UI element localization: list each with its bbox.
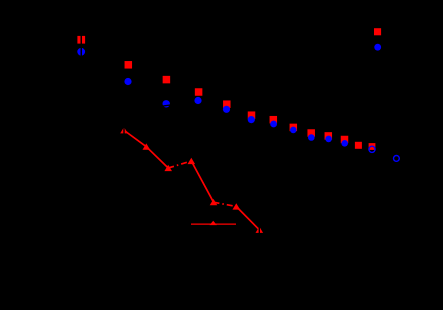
marker: blue circle B3 xyxy=(163,100,170,107)
marker: red triangle T1 xyxy=(120,127,128,133)
marker: red square R12 xyxy=(355,142,362,149)
black slash through B3 xyxy=(162,105,171,106)
marker: blue circle B8 xyxy=(290,127,297,134)
marker: red square R1 xyxy=(77,36,85,44)
marker: blue circle B6 xyxy=(248,116,255,123)
legend marker: red triangle on legend line xyxy=(210,221,217,225)
marker: blue circle B10 xyxy=(325,136,332,143)
marker: red square R8 xyxy=(290,124,298,131)
marker: red triangle T7 xyxy=(256,227,264,233)
marker: blue circle B1 xyxy=(77,48,85,56)
marker: red triangle T4 xyxy=(188,158,196,164)
marker: blue open circle O1 xyxy=(369,146,375,152)
wire: triangle-series line T1-T2 solid xyxy=(124,130,146,146)
marker: red square R13 xyxy=(369,143,376,150)
marker: red triangle T6 xyxy=(233,203,241,209)
wire: triangle-series line T5-T6 dashed xyxy=(214,202,237,206)
marker: red square R4 xyxy=(195,88,203,96)
wire: triangle-series line T3-T4 dash-dot xyxy=(168,161,191,168)
wire: triangle-series line T4-T5 solid xyxy=(191,161,213,202)
marker: red square R10 xyxy=(325,132,333,140)
marker: blue circle B11 xyxy=(341,140,348,147)
error bar (black) through R1 and B1 xyxy=(81,35,83,58)
marker: red square R6 xyxy=(248,111,256,119)
marker: red square R11 xyxy=(341,136,349,144)
error bar (black) through T7 xyxy=(259,226,260,235)
wire: triangle-series line T2-T3 solid xyxy=(146,147,168,168)
legend marker: red square (top right) xyxy=(374,28,381,35)
error bar (black) through T1 xyxy=(123,126,124,135)
legend sample: red line with triangle (bottom center) xyxy=(191,223,236,225)
marker: red square R2 xyxy=(125,61,133,69)
marker: blue circle B4 xyxy=(194,97,201,104)
legend marker: blue circle (top right) xyxy=(374,44,381,51)
marker: blue open circle O2 xyxy=(394,156,400,162)
marker: red square R3 xyxy=(163,76,171,84)
marker: red square R9 xyxy=(307,129,315,137)
marker: blue circle B5 xyxy=(223,106,230,113)
wire: triangle-series line T6-T7 solid xyxy=(236,207,259,230)
marker: blue circle B2 xyxy=(124,78,131,85)
marker: red triangle T5 xyxy=(210,199,218,205)
marker: blue circle B9 xyxy=(308,134,315,141)
marker: blue circle B7 xyxy=(270,121,277,128)
marker: red square R5 xyxy=(223,100,231,108)
marker: red triangle T2 xyxy=(143,143,151,149)
marker: red square R7 xyxy=(270,116,278,124)
marker: red triangle T3 xyxy=(164,165,172,171)
